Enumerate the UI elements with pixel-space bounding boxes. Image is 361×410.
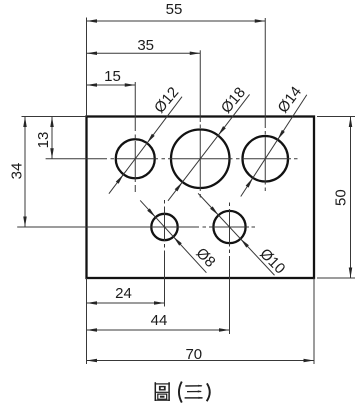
- dim 34: [9, 117, 27, 228]
- extension line bottom left vertical for 24 44 70 dims: [86, 278, 88, 364]
- hole D12: [116, 139, 155, 178]
- svg-text:13: 13: [35, 132, 52, 149]
- svg-text:Ø10: Ø10: [256, 245, 288, 277]
- dim 15: [87, 68, 136, 87]
- svg-text:44: 44: [151, 312, 168, 329]
- hole D14: [243, 136, 289, 182]
- leader D10: [198, 193, 288, 277]
- svg-text:70: 70: [185, 346, 202, 363]
- dim 44: [87, 312, 230, 332]
- svg-text:15: 15: [104, 68, 121, 85]
- svg-text:Ø14: Ø14: [275, 83, 306, 116]
- leader D12: [109, 84, 182, 194]
- svg-text:55: 55: [166, 1, 183, 18]
- dim 24: [87, 285, 165, 305]
- leader D18: [168, 84, 250, 201]
- center line vertical hole D12 / extension to 15 dim: [134, 82, 136, 192]
- hole D8: [151, 214, 177, 240]
- dim 70: [87, 346, 315, 363]
- center line horizontal lower hole row: [17, 226, 255, 228]
- leader D8: [140, 200, 218, 272]
- extension line bottom right vertical for 70 dim: [313, 278, 315, 364]
- svg-text:Ø18: Ø18: [218, 84, 249, 117]
- center line vertical hole D18 / extension to 35 dim: [199, 50, 201, 197]
- extension line right bottom for 50 dim: [317, 277, 355, 279]
- caption opening parenthesis: [179, 382, 182, 403]
- caption character tu (figure): [155, 382, 170, 401]
- leader D14: [241, 83, 307, 196]
- svg-text:50: 50: [333, 189, 350, 206]
- center line vertical hole D14 / extension to 55 dim: [264, 18, 266, 191]
- extension line left vertical shared by 55 35 15 dims: [86, 18, 88, 117]
- svg-text:34: 34: [9, 163, 26, 180]
- caption closing parenthesis: [207, 383, 210, 401]
- extension line right top for 50 dim: [317, 116, 355, 118]
- dim 50: [333, 117, 353, 279]
- dim 55: [87, 1, 266, 23]
- center line vertical hole D10 / extension to 44 dim: [229, 203, 231, 335]
- center line horizontal upper hole row: [46, 158, 298, 160]
- plate outline: [87, 117, 315, 279]
- svg-text:35: 35: [137, 37, 154, 54]
- svg-text:Ø8: Ø8: [193, 245, 219, 271]
- center line vertical hole D8 / extension to 24 dim: [164, 200, 166, 307]
- extension line top edge leftwards for 13 34 dims: [22, 116, 87, 118]
- svg-text:24: 24: [115, 285, 132, 302]
- hole D18: [171, 130, 230, 189]
- hole D10: [213, 211, 245, 243]
- caption character san (three): [185, 385, 203, 399]
- dim 35: [87, 37, 201, 55]
- svg-text:Ø12: Ø12: [151, 84, 182, 117]
- dim 13: [35, 117, 54, 159]
